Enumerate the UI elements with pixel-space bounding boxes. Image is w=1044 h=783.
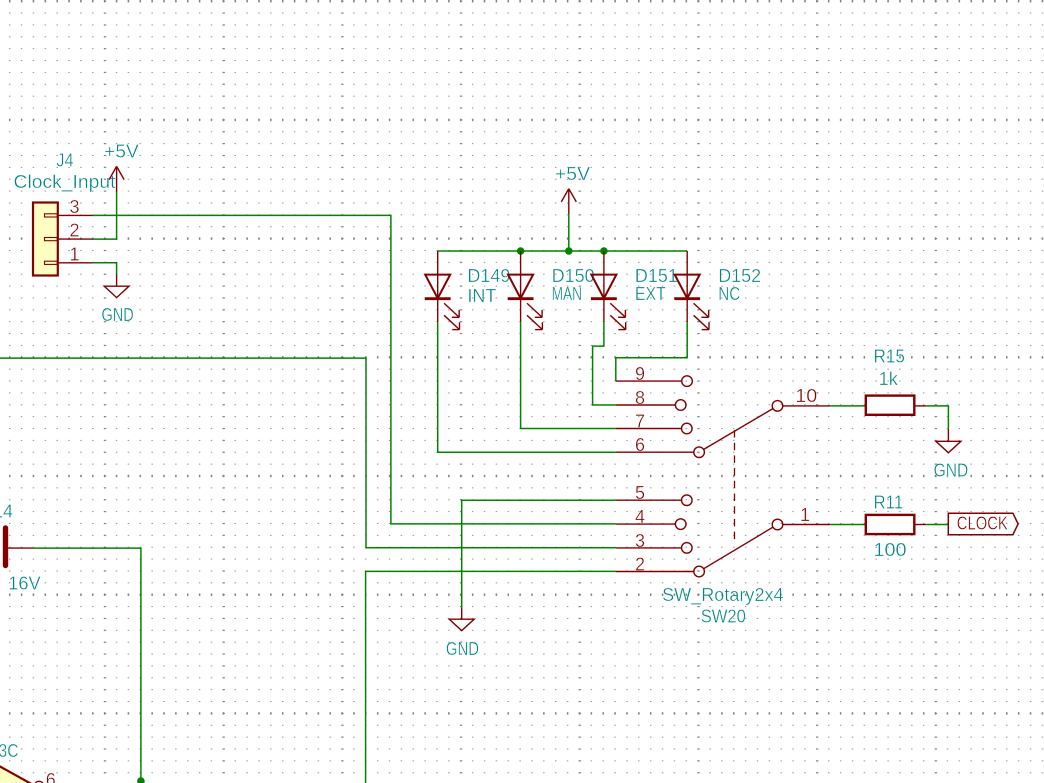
svg-text:GND: GND <box>102 305 134 325</box>
ground GND (J4) <box>104 275 129 298</box>
power +5V (LED bus) <box>561 189 576 214</box>
svg-text:14: 14 <box>0 501 13 521</box>
LED D151 <box>591 251 626 330</box>
svg-text:GND: GND <box>934 460 969 480</box>
svg-text:D150: D150 <box>552 266 595 286</box>
svg-text:7: 7 <box>635 411 645 431</box>
svg-text:GND: GND <box>446 639 479 659</box>
SW20 pin 2 <box>616 554 705 576</box>
svg-text:+5V: +5V <box>104 141 139 161</box>
svg-text:1: 1 <box>800 505 810 525</box>
J4 pin 2 <box>58 221 93 241</box>
connector J4 body <box>33 203 58 276</box>
wire D151 to SW pin 8 <box>593 322 616 405</box>
junction at D150 <box>517 247 525 255</box>
op-amp U3C (partial, bottom left corner) <box>0 766 44 783</box>
J4 pin 1 <box>58 244 93 264</box>
svg-text:3: 3 <box>635 531 645 551</box>
LED D149 <box>425 251 460 330</box>
junction bottom <box>137 777 145 783</box>
svg-text:10: 10 <box>795 386 817 406</box>
svg-text:R15: R15 <box>874 347 905 367</box>
SW20 mechanical link (dashed) <box>734 430 736 540</box>
capacitor C14 (partial, left edge) <box>6 528 34 566</box>
wire D149 to SW pin 6 <box>438 322 616 452</box>
hierarchical label CLOCK <box>948 513 1018 535</box>
svg-text:Clock_Input: Clock_Input <box>14 172 116 193</box>
svg-text:J4: J4 <box>56 151 73 171</box>
power +5V (J4) <box>109 166 124 192</box>
LED D150 <box>508 251 543 330</box>
SW20 pin 4 <box>616 507 686 529</box>
svg-text:9: 9 <box>635 364 645 384</box>
J4 pin 3 <box>58 197 93 217</box>
svg-text:3C: 3C <box>0 741 19 761</box>
svg-text:NC: NC <box>718 284 740 304</box>
resistor R11 <box>866 515 927 534</box>
wire D152 to SW pin 9 <box>616 322 687 381</box>
svg-text:MAN: MAN <box>552 284 583 304</box>
wire C14 to bottom junction <box>33 548 141 781</box>
wire J4 pin 1 to GND <box>93 263 117 275</box>
svg-text:6: 6 <box>46 770 56 783</box>
SW20 pin 3 <box>616 531 692 553</box>
svg-text:D152: D152 <box>718 266 761 286</box>
wire +5V to J4 pin 2 <box>93 192 117 239</box>
resistor R15 <box>866 396 927 415</box>
wire SW pin 10 to R15 <box>830 405 866 407</box>
wire J4 pin 3 to SW pin 4 <box>93 215 616 524</box>
SW20 pin 10 <box>772 386 830 411</box>
svg-text:1: 1 <box>69 244 79 264</box>
svg-text:SW_Rotary2x4: SW_Rotary2x4 <box>662 585 784 606</box>
svg-text:2: 2 <box>635 554 645 574</box>
svg-text:1k: 1k <box>879 369 899 389</box>
SW20 pin 7 <box>616 411 692 433</box>
svg-text:2: 2 <box>69 221 79 241</box>
wire SW pin 1 to R11 <box>830 524 866 526</box>
SW20 wiper B diagonal <box>704 409 773 450</box>
ground GND (R15) <box>936 429 961 453</box>
wire +5V down to bus <box>568 214 570 251</box>
svg-text:4: 4 <box>635 507 645 527</box>
SW20 pin 8 <box>616 388 686 410</box>
wire D150 to SW pin 7 <box>521 322 616 428</box>
svg-text:+5V: +5V <box>555 164 590 184</box>
svg-text:CLOCK: CLOCK <box>957 514 1008 534</box>
svg-text:16V: 16V <box>8 574 40 594</box>
svg-text:D151: D151 <box>635 266 678 286</box>
svg-text:R11: R11 <box>874 492 904 512</box>
wire bottom edge to SW pin 2 <box>366 571 616 783</box>
SW20 pin 1 <box>772 505 830 530</box>
SW20 wiper A diagonal <box>704 527 773 569</box>
svg-text:SW20: SW20 <box>701 607 746 627</box>
junction at +5V stem <box>565 247 573 255</box>
wire R15 to GND <box>926 406 948 429</box>
ground GND (SW pin 5) <box>449 608 474 631</box>
LED D152 <box>674 251 709 330</box>
svg-text:EXT: EXT <box>635 284 666 304</box>
wire R11 to CLOCK label <box>926 524 948 526</box>
svg-text:3: 3 <box>69 197 79 217</box>
SW20 pin 5 <box>616 483 692 505</box>
svg-text:8: 8 <box>635 388 645 408</box>
rotary switch SW20 pin 9 <box>616 364 693 386</box>
svg-text:D149: D149 <box>467 266 510 286</box>
junction at D151 <box>600 247 608 255</box>
wire left edge to SW pin 3 <box>0 358 616 548</box>
svg-text:6: 6 <box>635 435 645 455</box>
SW20 pin 6 <box>616 435 705 458</box>
wire SW pin 5 to GND <box>462 500 616 608</box>
wire LED supply bus <box>438 250 688 252</box>
svg-text:INT: INT <box>467 286 496 306</box>
svg-text:100: 100 <box>874 540 907 560</box>
svg-text:5: 5 <box>635 483 645 503</box>
